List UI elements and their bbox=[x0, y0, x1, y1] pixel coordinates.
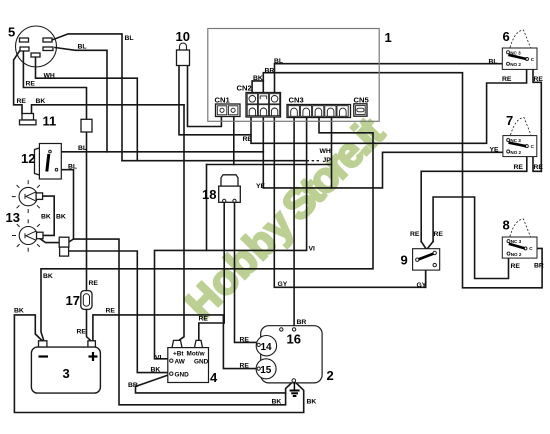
wire BL1 jumper line to CN3 via JP bbox=[122, 160, 307, 162]
svg-text:10: 10 bbox=[176, 29, 190, 44]
wire RE from CN2 to microswitch 6 common bbox=[251, 60, 527, 143]
connector CN1 bbox=[216, 104, 241, 117]
svg-text:BK: BK bbox=[56, 214, 66, 221]
lamp 13 upper bbox=[12, 180, 43, 213]
svg-text:CN1: CN1 bbox=[215, 96, 231, 105]
wire CN1 right pin stub bbox=[233, 116, 235, 165]
connector CN2 bbox=[246, 93, 281, 118]
svg-text:BK: BK bbox=[14, 308, 24, 315]
svg-text:4: 4 bbox=[210, 370, 218, 385]
svg-text:BR: BR bbox=[265, 68, 275, 75]
svg-text:6: 6 bbox=[503, 29, 510, 44]
svg-text:WH: WH bbox=[320, 148, 331, 155]
wire BL2 from key switch 5 bbox=[55, 48, 107, 152]
svg-text:RE: RE bbox=[514, 164, 524, 171]
svg-text:BL: BL bbox=[68, 164, 77, 171]
sensor 10 bbox=[177, 43, 190, 65]
wire sensor 10 left pin to CN2 bbox=[179, 66, 251, 135]
wire BL switch 12 bottom to lamps connector bbox=[58, 170, 74, 242]
wire BK buzzer 11 to riser bbox=[32, 105, 185, 114]
svg-text:YE: YE bbox=[490, 147, 500, 154]
svg-text:BL: BL bbox=[78, 145, 87, 152]
wire BR GND of 4 to engine ground bbox=[136, 375, 286, 393]
wire horizontal under box 1 bbox=[207, 165, 332, 251]
svg-text:NO 2: NO 2 bbox=[510, 150, 521, 155]
svg-text:BL: BL bbox=[274, 58, 283, 65]
wire BR from CN3 pin1 to terminal 16 bbox=[293, 118, 295, 328]
svg-text:RE: RE bbox=[26, 81, 36, 88]
wire VI from CN3 pin2 to AW of 4 bbox=[155, 118, 307, 359]
svg-text:GY: GY bbox=[417, 282, 427, 289]
wire BL switch 12 top bbox=[52, 151, 264, 153]
wire CN3 pin4 down to YE line bbox=[331, 118, 333, 188]
connector CN5 bbox=[354, 104, 367, 116]
wire BR terminal 16 riser bbox=[293, 328, 295, 330]
svg-text:5: 5 bbox=[8, 25, 15, 40]
svg-text:RE: RE bbox=[243, 136, 253, 143]
svg-text:16: 16 bbox=[287, 332, 301, 347]
buzzer 11 bbox=[20, 114, 37, 125]
key switch 5 bbox=[16, 26, 57, 67]
wire GY from CN2 to switch 9 bbox=[274, 118, 425, 288]
svg-text:BK: BK bbox=[36, 98, 46, 105]
wire RE from key switch 5 to fuse line bbox=[23, 51, 86, 119]
microswitch 8 bbox=[502, 219, 537, 258]
svg-text:15: 15 bbox=[260, 365, 272, 376]
svg-text:RE: RE bbox=[410, 231, 420, 238]
svg-text:8: 8 bbox=[503, 218, 510, 233]
microswitch 6 bbox=[502, 30, 537, 69]
svg-text:JP: JP bbox=[323, 157, 332, 164]
microswitch 7 bbox=[503, 118, 537, 157]
wire BK stub CN2 top-left bbox=[252, 81, 263, 93]
wire RE from key switch 5 to buzzer 11 bbox=[14, 51, 22, 114]
battery 3 bbox=[31, 341, 100, 393]
toggle switch 9 bbox=[413, 249, 440, 270]
starter circle 14 bbox=[256, 336, 276, 356]
lamps inline connector bbox=[59, 237, 69, 256]
engine ground terminal bbox=[292, 379, 296, 383]
wire fuse to battery plus bbox=[87, 132, 92, 341]
svg-text:RE: RE bbox=[534, 76, 544, 83]
svg-text:CN3: CN3 bbox=[289, 96, 304, 105]
wire lamp A to lamp B bbox=[43, 196, 55, 235]
wire BL1 from key switch 5 to descent bbox=[52, 34, 122, 161]
wire YE from CN2 to microswitch 7 NO bbox=[263, 118, 506, 188]
wire GY switch 9 down bbox=[425, 270, 427, 287]
svg-text:VI: VI bbox=[155, 355, 162, 362]
wire riser to +Bt of 4 bbox=[176, 105, 184, 343]
wire microswitch 7 common diagonal branch bbox=[529, 148, 541, 172]
wire BR from CN2 to microswitch 8 common bbox=[263, 73, 542, 288]
wire RE sensor 18 left pin to Mot/w of 4 bbox=[199, 203, 224, 341]
inline connector on WH wire bbox=[81, 119, 92, 132]
V plug arrow to switch 9 bbox=[421, 242, 433, 250]
svg-text:13: 13 bbox=[6, 210, 20, 225]
svg-text:RE: RE bbox=[511, 263, 521, 270]
connector CN3 bbox=[287, 105, 351, 118]
svg-text:2: 2 bbox=[327, 368, 334, 383]
svg-text:BL: BL bbox=[489, 59, 498, 66]
svg-text:BK: BK bbox=[43, 273, 53, 280]
svg-text:VI: VI bbox=[309, 246, 316, 253]
motor controller 4 bbox=[168, 340, 209, 382]
starter circle 15 bbox=[256, 359, 276, 379]
watermark bbox=[176, 108, 393, 328]
lamp 13 lower bbox=[12, 219, 43, 251]
svg-text:BR: BR bbox=[534, 263, 544, 270]
wire WH from key switch 5 to GND of 4 bbox=[36, 57, 138, 161]
wire BK battery minus up to CN3 pin3 loop bbox=[41, 118, 373, 342]
svg-text:7: 7 bbox=[506, 113, 513, 128]
engine unit 2 bbox=[261, 326, 322, 383]
wire microswitch 6 common right branch bbox=[528, 60, 541, 172]
svg-text:NO 2: NO 2 bbox=[510, 62, 521, 67]
svg-text:RE: RE bbox=[240, 363, 250, 370]
svg-text:3: 3 bbox=[63, 366, 70, 381]
svg-text:RE: RE bbox=[199, 316, 209, 323]
wire lamps connector to WH/BK line bbox=[69, 251, 170, 373]
wire BK from descent to engine ground bbox=[74, 239, 293, 405]
svg-text:RE: RE bbox=[240, 337, 250, 344]
wire lamp B to connector 13 bbox=[40, 239, 59, 243]
svg-text:GND: GND bbox=[194, 359, 209, 366]
svg-text:RE: RE bbox=[534, 164, 544, 171]
lever switch 12 bbox=[35, 144, 62, 180]
wire RE sensor 18 right pin to circle 14 bbox=[235, 203, 257, 343]
svg-text:BK: BK bbox=[307, 399, 317, 406]
svg-text:9: 9 bbox=[401, 253, 408, 268]
svg-text:11: 11 bbox=[43, 114, 57, 129]
svg-text:BR: BR bbox=[128, 382, 138, 389]
svg-text:RE: RE bbox=[106, 308, 116, 315]
svg-text:BK: BK bbox=[272, 399, 282, 406]
svg-text:CN5: CN5 bbox=[354, 96, 370, 105]
svg-text:BL: BL bbox=[78, 44, 87, 51]
svg-text:RE: RE bbox=[77, 329, 87, 336]
svg-text:BK: BK bbox=[253, 75, 263, 82]
svg-text:NO 2: NO 2 bbox=[511, 252, 522, 257]
svg-text:12: 12 bbox=[21, 151, 35, 166]
svg-text:RE: RE bbox=[89, 280, 99, 287]
svg-text:RE: RE bbox=[434, 231, 444, 238]
svg-text:+Bt: +Bt bbox=[173, 350, 184, 357]
wire RE microswitch 8 NO to V plug right leg bbox=[433, 197, 508, 279]
svg-text:BK: BK bbox=[151, 367, 161, 374]
svg-text:17: 17 bbox=[66, 293, 80, 308]
control unit box 1 bbox=[208, 29, 379, 122]
ground symbol bbox=[290, 382, 300, 396]
svg-text:CN2: CN2 bbox=[237, 84, 252, 93]
svg-text:BK: BK bbox=[41, 214, 51, 221]
wire RE bus from fuse to circle 15 bbox=[93, 315, 257, 369]
wire BK battery minus bottom loop to engine ground bbox=[14, 315, 303, 413]
fuse 17 bbox=[81, 291, 92, 310]
svg-text:YE: YE bbox=[256, 183, 266, 190]
svg-text:Mot/w: Mot/w bbox=[187, 350, 205, 357]
sensor 18 bbox=[219, 175, 241, 203]
svg-text:14: 14 bbox=[261, 342, 273, 353]
svg-text:WH: WH bbox=[44, 73, 55, 80]
jumper JP dashed bbox=[307, 160, 319, 162]
wire microswitch 7 common branches to V plug bbox=[421, 148, 527, 242]
svg-text:GND: GND bbox=[175, 372, 190, 379]
svg-text:RE: RE bbox=[17, 98, 27, 105]
svg-text:RE: RE bbox=[502, 76, 512, 83]
svg-text:GY: GY bbox=[278, 281, 288, 288]
svg-text:BL: BL bbox=[125, 35, 134, 42]
svg-text:1: 1 bbox=[385, 30, 392, 45]
svg-text:BR: BR bbox=[297, 319, 307, 326]
wire sensor 10 right pin to CN1 bbox=[188, 66, 222, 127]
svg-text:18: 18 bbox=[202, 187, 216, 202]
svg-text:AW: AW bbox=[175, 359, 186, 366]
wire BL from CN2 to microswitch 6 NO bbox=[275, 64, 508, 93]
